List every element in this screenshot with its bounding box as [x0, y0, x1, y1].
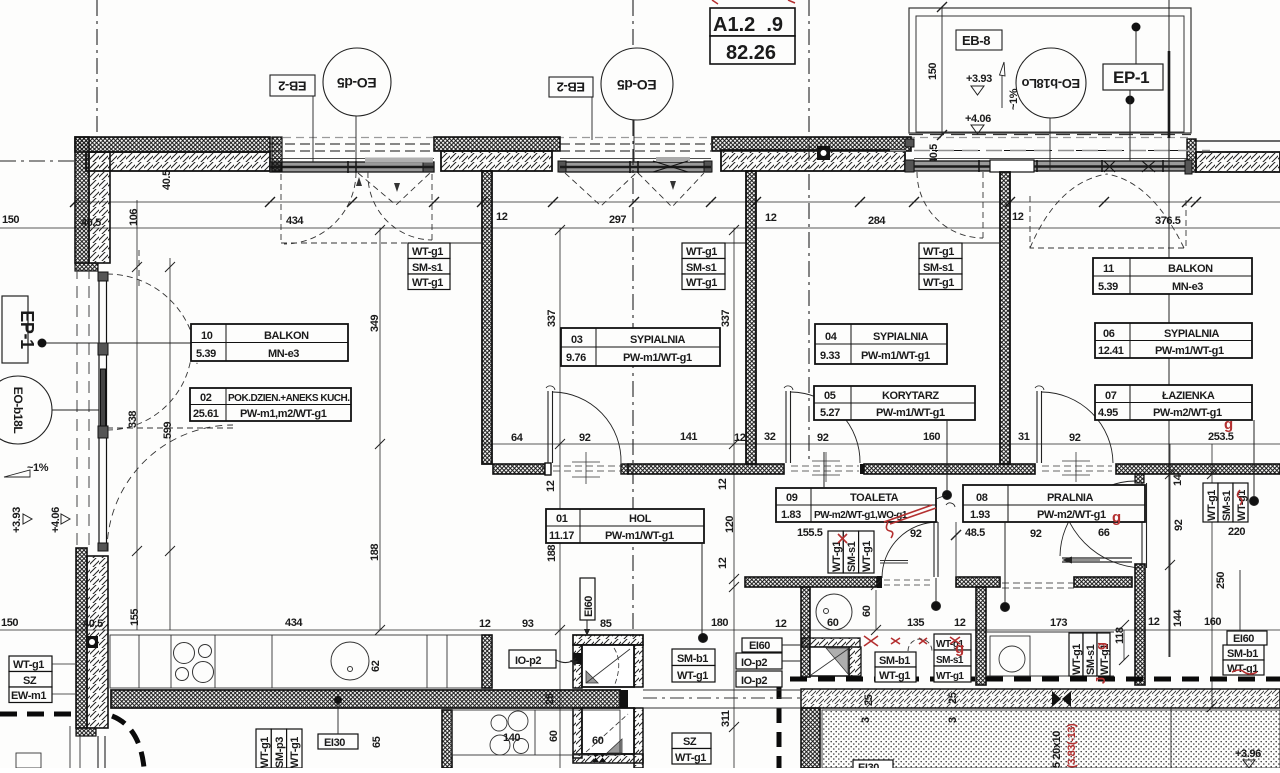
- svg-text:09: 09: [786, 492, 798, 504]
- svg-text:SM-s1: SM-s1: [923, 262, 954, 274]
- finish stack L7 rotated (pralnia): [1069, 633, 1111, 676]
- wall V5 (x976): [976, 587, 986, 685]
- label EI60 (lazienka): [1227, 570, 1267, 645]
- balcony door swing arcs (room 02): [107, 250, 233, 551]
- balcony 150 dim: [937, 2, 947, 140]
- svg-text:12.41: 12.41: [1098, 345, 1124, 357]
- svg-text:EB-2: EB-2: [278, 79, 306, 94]
- EI30 partial box bottom center: [853, 760, 893, 773]
- svg-text:PW-m1/WT-g1: PW-m1/WT-g1: [861, 350, 930, 362]
- svg-text:92: 92: [817, 432, 829, 444]
- svg-text:599: 599: [162, 422, 174, 439]
- svg-text:141: 141: [680, 431, 697, 443]
- room table 10 BALKON: [191, 324, 348, 361]
- wall segment S3 (between window W2 and W3): [712, 137, 911, 171]
- wall segment S1 top-left: [75, 137, 270, 171]
- svg-text:PW-m1/WT-g1: PW-m1/WT-g1: [1155, 345, 1224, 357]
- circle EO-b18L left: [0, 376, 99, 444]
- svg-text:5.39: 5.39: [196, 348, 216, 360]
- lower neighbor counter + stove: [452, 710, 620, 755]
- svg-text:11: 11: [1103, 263, 1114, 275]
- svg-text:349: 349: [369, 315, 381, 332]
- svg-text:12: 12: [954, 617, 966, 629]
- left exterior wall upper segment: [75, 137, 110, 271]
- misc chain ticks left: [132, 225, 1217, 732]
- svg-text:EP-1: EP-1: [1113, 68, 1149, 87]
- window W3 (under balcony EB-8): [905, 139, 1192, 174]
- svg-text:06: 06: [1103, 328, 1115, 340]
- svg-text:POK.DZIEN.+ANEKS KUCH.: POK.DZIEN.+ANEKS KUCH.: [228, 393, 350, 404]
- svg-text:92: 92: [1030, 528, 1042, 540]
- svg-text:155: 155: [129, 609, 141, 626]
- svg-text:A1.2 .9: A1.2 .9: [713, 14, 783, 36]
- svg-text:WT-g1: WT-g1: [289, 737, 301, 768]
- title block A1.2: [710, 0, 795, 64]
- svg-text:12: 12: [1012, 211, 1024, 223]
- label EP-1 left: [2, 296, 233, 363]
- kitchen counter upper: [110, 635, 482, 688]
- svg-text:EI60: EI60: [749, 640, 770, 652]
- door 03 centerline cross: [572, 452, 600, 484]
- svg-text:82.26: 82.26: [726, 42, 776, 64]
- svg-text:BALKON: BALKON: [264, 330, 309, 342]
- svg-text:SM-p3: SM-p3: [274, 737, 286, 768]
- svg-text:SM-b1: SM-b1: [677, 653, 708, 665]
- rotated dim texts (vertical chains): [127, 63, 1227, 748]
- shaft below band (lower): [573, 708, 643, 768]
- svg-text:12: 12: [545, 480, 557, 492]
- svg-text:08: 08: [976, 492, 988, 504]
- toaleta niche lines + jamb: [880, 522, 961, 651]
- door 07 (to bedroom 06): [1035, 386, 1113, 463]
- svg-text:PW-m2/WT-g1: PW-m2/WT-g1: [1037, 509, 1106, 521]
- svg-text:SM-b1: SM-b1: [1227, 648, 1258, 660]
- svg-text:180: 180: [711, 617, 728, 629]
- finish stack L2 (room 03): [682, 243, 746, 290]
- svg-text:MN-e3: MN-e3: [1172, 281, 1203, 293]
- svg-text:WT-g1: WT-g1: [675, 752, 706, 764]
- level marks +3.93 +4.06 left: [11, 507, 70, 533]
- window W1: [270, 144, 434, 173]
- svg-text:+4.06: +4.06: [50, 507, 62, 533]
- svg-text:03: 03: [571, 334, 583, 346]
- kitchen-hall wall block x482: [482, 635, 492, 688]
- svg-text:173: 173: [1050, 617, 1067, 629]
- svg-text:SYPIALNIA: SYPIALNIA: [630, 334, 686, 346]
- finish stack L11 (lazienka SM-b1): [1223, 645, 1264, 675]
- svg-text:120: 120: [724, 516, 736, 533]
- kitchen sink: [331, 642, 369, 680]
- svg-text:WT-g1: WT-g1: [936, 671, 964, 682]
- pralnia door swing arc: [1060, 481, 1135, 556]
- svg-text:SM-s1: SM-s1: [412, 262, 443, 274]
- svg-text:KORYTARZ: KORYTARZ: [882, 390, 939, 402]
- window W2: [558, 144, 712, 173]
- svg-text:66: 66: [1098, 527, 1110, 539]
- toaleta door threshold dashes: [884, 580, 932, 585]
- svg-text:150: 150: [1, 617, 18, 629]
- svg-text:220: 220: [1228, 526, 1245, 538]
- svg-text:EO-b18L: EO-b18L: [11, 387, 25, 434]
- svg-text:EB-2: EB-2: [557, 80, 585, 95]
- svg-text:12: 12: [1148, 616, 1160, 628]
- svg-text:434: 434: [286, 215, 304, 227]
- svg-text:WT-g1: WT-g1: [861, 541, 873, 572]
- svg-text:J: J: [1093, 677, 1108, 684]
- svg-text:60: 60: [592, 735, 604, 747]
- wall segment S2 (between window W1 and W2): [434, 137, 560, 171]
- finish stack L10 (SZ below): [672, 733, 711, 764]
- svg-text:12: 12: [775, 618, 787, 630]
- label EB-2 #1: [270, 75, 315, 162]
- finish stack L4 rotated (toaleta): [828, 531, 874, 573]
- red corrections: [838, 490, 1257, 674]
- main bottom wall band y690 left part: [111, 690, 620, 708]
- room table 01 HOL: [546, 509, 704, 543]
- svg-text:EI60: EI60: [583, 596, 595, 617]
- svg-text:WT-g1: WT-g1: [259, 737, 271, 768]
- svg-text:5 20x10: 5 20x10: [1051, 731, 1063, 768]
- wall V9 (x801 bottom): [801, 708, 820, 768]
- door 03 (to bedroom 03): [542, 386, 621, 469]
- balcony door W0 (left wall french window): [98, 272, 108, 551]
- svg-text:g: g: [1112, 509, 1121, 526]
- svg-text:EI30: EI30: [858, 762, 879, 768]
- svg-text:PW-m1,m2/WT-g1: PW-m1,m2/WT-g1: [240, 408, 327, 420]
- door to bathroom 07 (wall x1140): [1060, 483, 1147, 568]
- svg-text:g: g: [955, 640, 964, 657]
- svg-text:SM-s1: SM-s1: [686, 262, 717, 274]
- label IO-p2 #1: [736, 653, 801, 669]
- bottom wall band right part y689: [801, 689, 1280, 708]
- svg-text:106: 106: [128, 209, 140, 226]
- svg-text:92: 92: [910, 528, 922, 540]
- svg-text:85: 85: [600, 618, 612, 630]
- balcony slope arrow ~1%: [1000, 62, 1021, 110]
- svg-text:EW-m1: EW-m1: [11, 690, 46, 702]
- svg-text:+3.93: +3.93: [11, 507, 23, 533]
- svg-text:40.5: 40.5: [161, 170, 173, 190]
- svg-text:92: 92: [579, 432, 591, 444]
- svg-text:150: 150: [2, 214, 19, 226]
- finish stack L1 (below W1): [408, 243, 482, 290]
- svg-text:05: 05: [824, 390, 836, 402]
- svg-text:EP-1: EP-1: [17, 310, 37, 349]
- svg-text:92: 92: [1069, 432, 1081, 444]
- door 05 (to bedroom 04): [784, 386, 860, 463]
- window W2 tilt symbol: [565, 173, 704, 207]
- svg-text:60: 60: [827, 617, 839, 629]
- svg-text:WT-g1: WT-g1: [923, 277, 954, 289]
- svg-text:WT-g1: WT-g1: [1206, 490, 1218, 521]
- door 03 threshold dashes: [553, 466, 621, 471]
- pralnia sliding door: [1002, 557, 1132, 589]
- mid horizontal wall y464: stub + segments: [493, 463, 1280, 483]
- label IO-p2 #2: [736, 671, 782, 687]
- finish stack L8 (toaleta right SM-b1): [875, 652, 916, 682]
- svg-text:02: 02: [200, 392, 212, 404]
- svg-text:311: 311: [720, 710, 732, 727]
- svg-text:EO-d5: EO-d5: [617, 77, 657, 93]
- svg-text:WT-g1: WT-g1: [1071, 644, 1083, 675]
- svg-text:3: 3: [860, 717, 872, 723]
- finish stack L5 rotated (lazienka right): [1203, 483, 1248, 522]
- window W1 tilt symbol + swing arcs + french balcony dashed outline: [281, 172, 432, 244]
- svg-text:WT-g1: WT-g1: [412, 246, 443, 258]
- svg-text:SM-s1: SM-s1: [846, 541, 858, 572]
- svg-text:PW-m1/WT-g1: PW-m1/WT-g1: [605, 530, 674, 542]
- svg-text:5.39: 5.39: [1098, 281, 1118, 293]
- svg-text:PRALNIA: PRALNIA: [1047, 492, 1094, 504]
- svg-text:07: 07: [1105, 390, 1117, 402]
- label EI60 vertical (hall shaft): [580, 578, 595, 636]
- svg-text:IO-p2: IO-p2: [515, 655, 541, 667]
- svg-text:48.5: 48.5: [965, 527, 985, 539]
- svg-text:188: 188: [369, 544, 381, 561]
- label EB-2 #2: [549, 77, 593, 140]
- table leader dots: [699, 420, 1259, 643]
- svg-text:+3.96: +3.96: [1235, 748, 1261, 760]
- interior wall V1 (x482): [482, 171, 492, 464]
- finish stack L20 (left wall): [9, 656, 75, 703]
- svg-text:337: 337: [720, 310, 732, 327]
- svg-text:11.17: 11.17: [549, 530, 574, 542]
- svg-text:284: 284: [868, 215, 886, 227]
- thick dashed boundary: [0, 679, 1280, 768]
- svg-text:WT-g1: WT-g1: [831, 541, 843, 572]
- terrace stipple area: [822, 710, 1280, 768]
- svg-text:376.5: 376.5: [1155, 215, 1181, 227]
- svg-text:12: 12: [479, 618, 491, 630]
- room table 03 SYPIALNIA: [561, 328, 720, 366]
- svg-text:EO-d5: EO-d5: [337, 75, 377, 91]
- svg-text:(3.83(-13): (3.83(-13): [1066, 723, 1078, 768]
- svg-text:SYPIALNIA: SYPIALNIA: [873, 331, 929, 343]
- svg-text:SM-b1: SM-b1: [879, 655, 910, 667]
- svg-text:01: 01: [556, 513, 568, 525]
- svg-text:31: 31: [1018, 431, 1030, 443]
- finish stack L6 (korytarz right): [934, 634, 971, 682]
- wall band y577 segments: [745, 576, 1132, 588]
- sub-dim texts row near toaleta/pralnia: [797, 526, 1245, 540]
- room table 09 TOALETA: [776, 488, 936, 522]
- svg-text:135: 135: [907, 617, 924, 629]
- svg-text:SM-s1: SM-s1: [1221, 490, 1233, 521]
- wall V4 (x1135 below door): [1135, 564, 1145, 685]
- black bowtie marker lower: [592, 753, 606, 762]
- balcony EB-8 outline: [890, 8, 1210, 151]
- svg-text:WT-g1: WT-g1: [13, 659, 44, 671]
- slope arrow ~1% left: [4, 462, 49, 477]
- svg-text:4.95: 4.95: [1098, 407, 1118, 419]
- room table 06 SYPIALNIA: [1095, 323, 1252, 358]
- left exterior wall lower segment: [76, 548, 108, 736]
- pralnia washing machine: [987, 632, 1114, 676]
- toaleta door (band y577): [882, 503, 955, 578]
- svg-text:14: 14: [1172, 473, 1184, 486]
- svg-text:62: 62: [370, 660, 382, 672]
- svg-text:337: 337: [546, 310, 558, 327]
- svg-text:EO-b18Lo: EO-b18Lo: [1021, 76, 1080, 91]
- svg-text:WT-g1: WT-g1: [686, 246, 717, 258]
- svg-text:25.61: 25.61: [193, 408, 219, 420]
- svg-text:SYPIALNIA: SYPIALNIA: [1164, 328, 1220, 340]
- svg-text:10: 10: [201, 330, 213, 342]
- svg-text:1.83: 1.83: [781, 509, 801, 521]
- svg-text:WT-g1: WT-g1: [677, 670, 708, 682]
- svg-text:SZ: SZ: [683, 736, 697, 748]
- svg-text:140: 140: [503, 732, 520, 744]
- circle EO-d5 #2: [601, 48, 673, 162]
- svg-text:WT-g1: WT-g1: [879, 670, 910, 682]
- svg-text:60: 60: [548, 730, 560, 742]
- svg-text:ŁAZIENKA: ŁAZIENKA: [1162, 390, 1215, 402]
- svg-text:188: 188: [546, 545, 558, 562]
- wall segment S4 top-right corner: [1187, 139, 1280, 172]
- svg-text:MN-e3: MN-e3: [268, 348, 299, 360]
- circle EO-b18Lo: [1016, 48, 1086, 170]
- svg-text:TOALETA: TOALETA: [850, 492, 899, 504]
- svg-text:9.76: 9.76: [566, 352, 586, 364]
- room table 11 BALKON: [1093, 258, 1252, 294]
- svg-text:92: 92: [1173, 519, 1185, 531]
- room table 02 POK.DZIEN.: [190, 388, 351, 421]
- label EI30: [318, 696, 358, 749]
- svg-text:9.33: 9.33: [820, 350, 840, 362]
- balcony level marks +3.93 +4.06: [965, 73, 992, 134]
- toaleta washbasin: [816, 594, 852, 630]
- svg-text:g: g: [1224, 416, 1233, 433]
- svg-text:150: 150: [927, 63, 939, 80]
- dim texts row4: [1, 616, 1221, 630]
- svg-text:g: g: [1093, 642, 1108, 650]
- stove burners: [174, 643, 214, 683]
- svg-text:250: 250: [1215, 572, 1227, 589]
- label EI60 (toaleta shaft): [742, 638, 801, 652]
- svg-text:1.93: 1.93: [970, 509, 990, 521]
- svg-text:PW-m2/WT-g1: PW-m2/WT-g1: [1153, 407, 1222, 419]
- svg-text:IO-p2: IO-p2: [741, 657, 767, 669]
- svg-text:04: 04: [825, 331, 838, 343]
- toaleta shaft (below washbasin): [802, 638, 861, 676]
- neighbor room bottom-left: [16, 726, 105, 768]
- svg-text:PW-m1/WT-g1: PW-m1/WT-g1: [876, 407, 945, 419]
- svg-text:PW-m1/WT-g1: PW-m1/WT-g1: [623, 352, 692, 364]
- svg-text:HOL: HOL: [629, 513, 652, 525]
- label EB-8: [956, 30, 1002, 50]
- dimension chain lines: [0, 200, 1280, 768]
- circle EO-d5 #1: [323, 48, 391, 162]
- entrance opening below hall: [643, 690, 801, 708]
- svg-text:338: 338: [127, 411, 139, 428]
- svg-text:WT-g1: WT-g1: [923, 246, 954, 258]
- section dash-dot lines: [0, 0, 809, 640]
- svg-text:160: 160: [923, 431, 940, 443]
- svg-text:+3.93: +3.93: [966, 73, 992, 85]
- long leader line x1169: [1168, 0, 1170, 657]
- svg-text:12: 12: [496, 211, 508, 223]
- label EP-1 right: [1103, 23, 1169, 162]
- svg-text:BALKON: BALKON: [1168, 263, 1213, 275]
- room table 07 LAZIENKA: [1095, 385, 1252, 420]
- finish stack L21 rotated (bottom): [256, 729, 302, 768]
- terrace texts: [860, 717, 1261, 768]
- svg-text:WT-g1: WT-g1: [686, 277, 717, 289]
- svg-text:144: 144: [1172, 609, 1184, 627]
- room table 05 KORYTARZ: [814, 386, 975, 420]
- window W3 swing arcs into room + balcony11 dashed outline: [917, 172, 1186, 248]
- room table 04 SYPIALNIA: [815, 324, 947, 364]
- wall V8 below (x442): [442, 710, 452, 768]
- exterior top wall outer finish line: [75, 137, 1190, 139]
- svg-text:~1%: ~1%: [1008, 88, 1020, 110]
- dimension ticks row1 y202: [70, 197, 1201, 207]
- svg-text:IO-p2: IO-p2: [741, 675, 767, 687]
- svg-text:12: 12: [717, 557, 729, 569]
- svg-text:65: 65: [371, 736, 383, 748]
- dim texts row3: [511, 431, 1234, 444]
- shaft next to hall (upper): [573, 635, 643, 688]
- left balcony dashed outline: [77, 267, 89, 548]
- svg-text:EB-8: EB-8: [962, 33, 990, 48]
- svg-text:32: 32: [764, 431, 776, 443]
- svg-text:EI60: EI60: [1233, 633, 1254, 645]
- svg-text:297: 297: [609, 214, 626, 226]
- label IO-p2 #3 (kitchen): [509, 650, 578, 668]
- svg-text:SZ: SZ: [23, 675, 37, 687]
- svg-text:160: 160: [1204, 616, 1221, 628]
- black bowtie on band: [1052, 691, 1071, 707]
- svg-text:93: 93: [522, 618, 534, 630]
- svg-text:64: 64: [511, 432, 524, 444]
- svg-text:12: 12: [765, 212, 777, 224]
- room table 08 PRALNIA: [963, 485, 1145, 522]
- interior wall V3 (x1000): [1000, 172, 1010, 464]
- svg-text:12: 12: [717, 478, 729, 490]
- svg-text:WT-g1: WT-g1: [412, 277, 443, 289]
- svg-text:3: 3: [947, 717, 959, 723]
- dim texts row2: [2, 211, 1181, 229]
- finish stack L9 (hall SM-b1): [672, 649, 715, 682]
- svg-text:+4.06: +4.06: [965, 113, 991, 125]
- wall V10 (x801 toaleta): [801, 587, 810, 677]
- svg-text:155.5: 155.5: [797, 527, 823, 539]
- finish stack L3 (room 04): [919, 243, 1000, 290]
- svg-text:434: 434: [285, 617, 303, 629]
- interior wall V2 (x746): [746, 171, 756, 464]
- svg-text:EI30: EI30: [324, 737, 345, 749]
- svg-text:60: 60: [861, 605, 873, 617]
- svg-text:5.27: 5.27: [820, 407, 840, 419]
